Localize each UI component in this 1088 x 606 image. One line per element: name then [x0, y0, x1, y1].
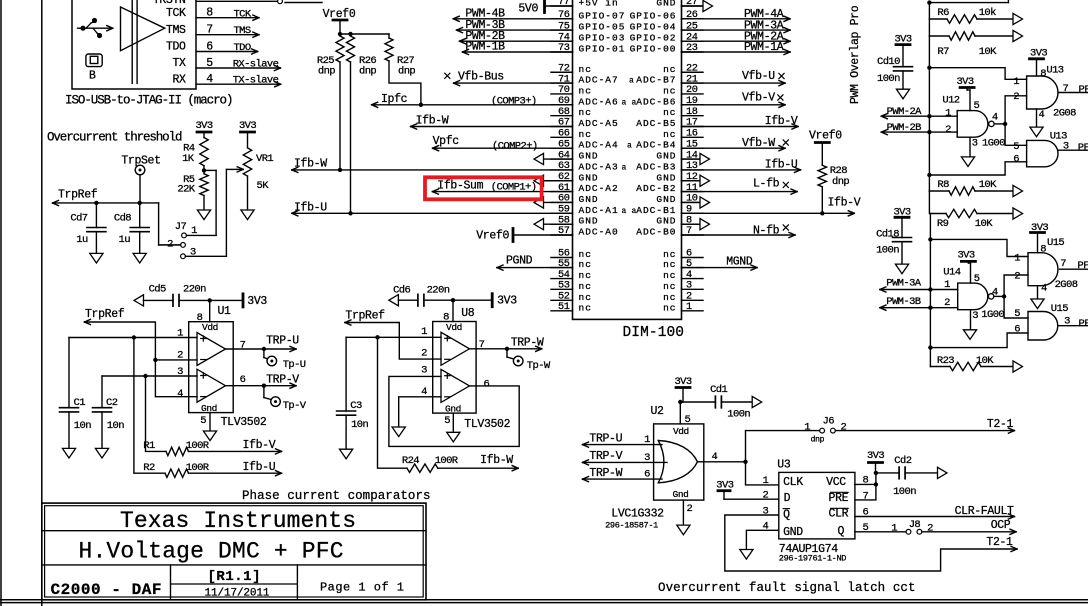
svg-text:Ipfc: Ipfc [381, 93, 408, 106]
svg-text:U14: U14 [943, 266, 960, 278]
svg-text:11/17/2011: 11/17/2011 [205, 588, 270, 600]
svg-text:6: 6 [1014, 323, 1020, 335]
svg-text:GPIO-02: GPIO-02 [630, 33, 677, 44]
svg-text:R2: R2 [143, 462, 155, 474]
svg-text:Cd10: Cd10 [877, 56, 900, 68]
svg-text:GPIO-01: GPIO-01 [579, 44, 626, 55]
svg-text:Vdd: Vdd [673, 426, 689, 437]
svg-text:nc: nc [663, 281, 676, 292]
svg-text:Ifb-V: Ifb-V [765, 115, 798, 128]
svg-text:TRSTN: TRSTN [153, 0, 186, 7]
svg-text:nc: nc [579, 302, 592, 313]
svg-text:PGND: PGND [506, 255, 533, 268]
svg-text:ADC-B1: ADC-B1 [636, 205, 676, 216]
svg-text:Cd7: Cd7 [70, 212, 87, 224]
svg-text:5: 5 [1013, 141, 1019, 153]
svg-text:U12: U12 [942, 94, 959, 106]
svg-text:TX: TX [172, 57, 186, 70]
svg-text:10n: 10n [74, 420, 91, 432]
svg-text:R9: R9 [937, 218, 949, 230]
svg-text:Q: Q [783, 508, 790, 521]
svg-text:6: 6 [1013, 153, 1019, 165]
svg-text:nc: nc [663, 107, 676, 118]
svg-text:ADC-A5: ADC-A5 [579, 118, 619, 129]
svg-text:J7: J7 [175, 221, 187, 233]
svg-text:Tp-V: Tp-V [283, 400, 307, 412]
svg-text:Overcurrent threshold: Overcurrent threshold [47, 130, 182, 144]
svg-text:7: 7 [1060, 258, 1066, 270]
svg-text:a: a [622, 207, 627, 216]
svg-text:296-18587-1: 296-18587-1 [605, 520, 658, 530]
svg-text:100R: 100R [435, 455, 459, 467]
svg-text:ADC-B0: ADC-B0 [636, 227, 676, 238]
svg-text:L-fb: L-fb [753, 178, 780, 191]
svg-text:a: a [632, 207, 637, 216]
svg-text:a: a [632, 98, 637, 107]
svg-text:10K: 10K [979, 46, 997, 58]
svg-text:100n: 100n [727, 408, 750, 420]
svg-text:nc: nc [579, 64, 592, 75]
svg-text:U2: U2 [651, 405, 665, 418]
svg-text:3V3: 3V3 [247, 295, 267, 308]
svg-text:TMS: TMS [233, 25, 250, 37]
svg-text:2G08: 2G08 [1053, 108, 1076, 120]
svg-text:nc: nc [663, 259, 676, 270]
svg-text:J8: J8 [909, 519, 921, 531]
svg-text:TRP-V: TRP-V [266, 373, 299, 386]
svg-text:TRP-U: TRP-U [266, 335, 299, 348]
svg-text:100n: 100n [893, 486, 916, 498]
svg-text:nc: nc [663, 270, 676, 281]
svg-text:TX-slave: TX-slave [233, 75, 279, 87]
svg-text:4: 4 [177, 388, 183, 400]
svg-text:R1: R1 [143, 440, 155, 452]
svg-text:Gnd: Gnd [673, 489, 689, 500]
svg-text:Cd18: Cd18 [876, 229, 899, 241]
svg-text:Vpfc: Vpfc [433, 135, 460, 148]
svg-text:Ifb-U: Ifb-U [294, 202, 327, 215]
svg-text:PWM-3B: PWM-3B [886, 296, 921, 308]
svg-text:10K: 10K [979, 179, 997, 191]
svg-text:7: 7 [1063, 83, 1069, 95]
svg-text:U15: U15 [1047, 237, 1064, 249]
svg-text:3: 3 [1064, 316, 1070, 328]
svg-text:ADC-B7: ADC-B7 [636, 75, 676, 86]
svg-text:VR1: VR1 [256, 153, 273, 165]
svg-text:(COMP2+): (COMP2+) [492, 140, 538, 152]
svg-text:R8: R8 [937, 179, 949, 191]
svg-text:10k: 10k [979, 7, 996, 19]
svg-text:Texas Instruments: Texas Instruments [120, 508, 356, 534]
svg-text:a: a [622, 98, 627, 107]
svg-text:1: 1 [1013, 76, 1019, 88]
svg-text:MGND: MGND [726, 256, 753, 269]
svg-text:GPIO-03: GPIO-03 [579, 33, 626, 44]
svg-text:3V3: 3V3 [867, 450, 884, 462]
svg-text:R7: R7 [937, 46, 949, 58]
svg-text:TRP-V: TRP-V [589, 450, 622, 463]
svg-text:27: 27 [686, 0, 698, 8]
svg-text:B: B [89, 70, 96, 83]
svg-text:1: 1 [945, 108, 951, 120]
svg-text:PF: PF [1077, 260, 1088, 272]
svg-text:Ifb-Sum: Ifb-Sum [437, 180, 483, 193]
svg-text:TRP-W: TRP-W [511, 337, 544, 350]
svg-text:ADC-A3: ADC-A3 [579, 161, 619, 172]
svg-text:2: 2 [421, 347, 427, 359]
svg-text:7: 7 [479, 339, 485, 351]
svg-text:TRP-W: TRP-W [589, 467, 622, 480]
svg-text:10K: 10K [976, 355, 994, 367]
svg-text:5: 5 [974, 273, 980, 285]
svg-text:100n: 100n [877, 73, 900, 85]
svg-text:TLV3502: TLV3502 [221, 416, 267, 429]
svg-text:ADC-A7: ADC-A7 [579, 75, 619, 86]
svg-text:Ifb-W: Ifb-W [294, 158, 327, 171]
svg-text:3V3: 3V3 [239, 120, 256, 132]
svg-text:296-19761-1-ND: 296-19761-1-ND [779, 554, 846, 564]
svg-text:nc: nc [579, 259, 592, 270]
svg-text:[R1.1]: [R1.1] [208, 569, 261, 585]
svg-text:Ifb-W: Ifb-W [480, 454, 513, 467]
svg-text:PRE: PRE [829, 492, 849, 505]
svg-text:nc: nc [579, 281, 592, 292]
svg-text:nc: nc [663, 64, 676, 75]
svg-text:22K: 22K [177, 184, 195, 196]
svg-text:a: a [629, 77, 634, 86]
svg-text:2: 2 [945, 124, 951, 136]
svg-text:ADC-A4: ADC-A4 [579, 140, 619, 151]
svg-text:a: a [627, 142, 632, 151]
svg-text:VCC: VCC [826, 476, 846, 489]
svg-text:Q: Q [838, 525, 845, 538]
svg-text:6: 6 [240, 374, 246, 386]
svg-text:U1: U1 [218, 305, 232, 318]
svg-text:4: 4 [712, 451, 718, 463]
svg-text:Vdd: Vdd [446, 322, 462, 333]
svg-text:100R: 100R [186, 440, 210, 452]
svg-text:ADC-A2: ADC-A2 [579, 183, 619, 194]
svg-text:100n: 100n [876, 245, 899, 257]
svg-text:2G08: 2G08 [1055, 279, 1078, 291]
svg-text:Cd2: Cd2 [894, 455, 911, 467]
svg-text:GPIO-06: GPIO-06 [630, 10, 677, 21]
svg-text:GND: GND [656, 194, 676, 205]
svg-text:1G00: 1G00 [982, 137, 1005, 149]
svg-text:R6: R6 [937, 7, 949, 19]
svg-text:a: a [622, 163, 627, 172]
svg-text:TCK: TCK [233, 9, 251, 21]
svg-text:nc: nc [579, 107, 592, 118]
svg-text:dnp: dnp [832, 176, 849, 188]
svg-text:ADC-B3: ADC-B3 [636, 161, 676, 172]
svg-text:PF: PF [1079, 84, 1088, 96]
svg-text:nc: nc [579, 270, 592, 281]
svg-text:ADC-A1: ADC-A1 [579, 205, 619, 216]
svg-text:5: 5 [444, 415, 450, 427]
svg-text:1u: 1u [119, 234, 131, 246]
svg-text:PF: PF [1078, 142, 1088, 154]
svg-text:T2-1: T2-1 [986, 536, 1013, 549]
svg-text:nc: nc [579, 292, 592, 303]
svg-text:GND: GND [656, 0, 676, 9]
svg-text:10n: 10n [351, 419, 368, 431]
svg-text:Ifb-V: Ifb-V [243, 439, 276, 452]
svg-text:GPIO-04: GPIO-04 [630, 22, 677, 33]
svg-text:CLK: CLK [783, 476, 803, 489]
svg-text:OCP: OCP [991, 519, 1011, 532]
svg-text:3: 3 [762, 506, 768, 518]
svg-text:TCK: TCK [166, 7, 186, 20]
svg-text:1: 1 [804, 421, 810, 433]
svg-text:220n: 220n [183, 283, 206, 295]
svg-text:2: 2 [177, 350, 183, 362]
svg-text:TrpRef: TrpRef [345, 310, 385, 323]
svg-text:3: 3 [1063, 141, 1069, 153]
svg-text:PWM-1A: PWM-1A [744, 41, 784, 54]
svg-text:ISO-USB-to-JTAG-II (macro): ISO-USB-to-JTAG-II (macro) [65, 94, 233, 108]
svg-text:1K: 1K [182, 153, 195, 165]
svg-text:TLV3502: TLV3502 [464, 418, 510, 431]
svg-text:4: 4 [1041, 283, 1047, 295]
svg-text:PWM-1B: PWM-1B [465, 41, 505, 54]
svg-text:3: 3 [421, 365, 427, 377]
svg-text:77: 77 [558, 0, 570, 8]
svg-text:Vdd: Vdd [202, 322, 218, 333]
svg-text:nc: nc [663, 249, 676, 260]
svg-text:nc: nc [579, 85, 592, 96]
svg-text:GND: GND [579, 151, 599, 162]
svg-text:Phase current comparators: Phase current comparators [242, 489, 430, 503]
svg-text:Cd1: Cd1 [710, 384, 727, 396]
svg-text:Tp-W: Tp-W [527, 360, 551, 372]
svg-text:1: 1 [762, 475, 768, 487]
svg-text:TDO: TDO [233, 42, 250, 54]
svg-text:3: 3 [644, 452, 650, 464]
svg-text:GPIO-07: GPIO-07 [579, 10, 626, 21]
svg-text:CLR-FAULT: CLR-FAULT [955, 505, 1014, 518]
svg-text:2: 2 [1014, 271, 1020, 283]
svg-text:1u: 1u [76, 234, 88, 246]
svg-text:ADC-B4: ADC-B4 [636, 140, 676, 151]
svg-text:1: 1 [891, 522, 897, 534]
svg-text:PWM Overlap Pro: PWM Overlap Pro [849, 5, 862, 104]
svg-text:GPIO-05: GPIO-05 [579, 22, 626, 33]
svg-text:Overcurrent fault signal latch: Overcurrent fault signal latch cct [658, 581, 915, 595]
svg-text:U15: U15 [1051, 303, 1068, 315]
svg-text:LVC1G332: LVC1G332 [611, 508, 664, 521]
svg-text:dnp: dnp [811, 435, 825, 444]
svg-text:GND: GND [579, 216, 599, 227]
svg-text:ADC-B2: ADC-B2 [636, 183, 676, 194]
svg-text:R24: R24 [402, 455, 419, 467]
svg-text:GND: GND [579, 194, 599, 205]
svg-text:TRP-U: TRP-U [589, 432, 622, 445]
svg-text:Ifb-W: Ifb-W [416, 115, 449, 128]
svg-text:GND: GND [656, 216, 676, 227]
svg-text:GND: GND [656, 172, 676, 183]
svg-text:8: 8 [1040, 68, 1046, 80]
svg-text:(COMP3+): (COMP3+) [491, 95, 537, 107]
svg-text:5K: 5K [257, 180, 270, 192]
svg-text:TDO: TDO [166, 41, 186, 54]
svg-text:ADC-A6: ADC-A6 [579, 96, 619, 107]
svg-text:Cd5: Cd5 [149, 283, 166, 295]
svg-text:Vref0: Vref0 [476, 229, 509, 242]
svg-text:3V3: 3V3 [497, 294, 517, 307]
svg-text:ADC-B5: ADC-B5 [636, 118, 676, 129]
svg-text:6: 6 [644, 469, 650, 481]
svg-text:U13: U13 [1046, 65, 1063, 77]
svg-text:CLR: CLR [829, 508, 849, 521]
svg-text:Ifb-U: Ifb-U [765, 159, 798, 172]
svg-text:Cd8: Cd8 [114, 212, 131, 224]
svg-text:dnp: dnp [318, 66, 335, 78]
svg-text:6: 6 [484, 378, 490, 390]
svg-text:R23: R23 [937, 355, 954, 367]
svg-text:GND: GND [783, 526, 803, 539]
svg-text:J6: J6 [823, 416, 835, 428]
svg-text:Vfb-W: Vfb-W [742, 137, 775, 150]
svg-text:C2: C2 [106, 397, 118, 409]
svg-text:Gnd: Gnd [201, 403, 217, 414]
svg-text:GND: GND [579, 172, 599, 183]
svg-text:5: 5 [200, 415, 206, 427]
svg-text:nc: nc [663, 85, 676, 96]
svg-text:220n: 220n [427, 284, 450, 296]
svg-text:(COMP1+): (COMP1+) [491, 181, 537, 193]
svg-text:dnp: dnp [398, 66, 415, 78]
svg-text:U3: U3 [777, 459, 791, 472]
svg-text:Cd6: Cd6 [393, 284, 410, 296]
svg-text:10n: 10n [107, 420, 124, 432]
svg-text:1: 1 [644, 434, 650, 446]
svg-text:2: 2 [841, 421, 847, 433]
svg-text:Page 1 of 1: Page 1 of 1 [320, 581, 404, 595]
svg-text:dnp: dnp [359, 66, 376, 78]
svg-text:3: 3 [972, 310, 978, 322]
svg-text:5V0: 5V0 [518, 3, 538, 16]
svg-text:RX-slave: RX-slave [233, 58, 279, 70]
svg-text:2: 2 [687, 503, 693, 515]
svg-text:8: 8 [1040, 244, 1046, 256]
svg-text:100R: 100R [186, 462, 210, 474]
svg-text:10K: 10K [975, 218, 993, 230]
svg-text:3V3: 3V3 [957, 250, 974, 262]
svg-text:4: 4 [1039, 109, 1045, 121]
svg-text:PF: PF [1079, 318, 1088, 330]
svg-text:Vref0: Vref0 [809, 129, 842, 142]
svg-text:Ifb-V: Ifb-V [828, 196, 861, 209]
svg-text:DIM-100: DIM-100 [623, 325, 684, 341]
svg-text:TrpRef: TrpRef [58, 189, 98, 202]
svg-text:7: 7 [240, 339, 246, 351]
svg-text:Vfb-Bus: Vfb-Bus [458, 71, 504, 84]
svg-text:U8: U8 [461, 307, 475, 320]
svg-text:nc: nc [579, 129, 592, 140]
svg-text:nc: nc [663, 129, 676, 140]
svg-text:1: 1 [421, 326, 427, 338]
svg-text:2: 2 [1013, 91, 1019, 103]
svg-text:Tp-U: Tp-U [283, 359, 306, 371]
svg-text:T2-1: T2-1 [987, 418, 1014, 431]
svg-text:3: 3 [972, 137, 978, 149]
svg-text:3V3: 3V3 [195, 120, 212, 132]
svg-text:Ifb-U: Ifb-U [243, 461, 276, 474]
svg-text:ADC-A0: ADC-A0 [579, 227, 619, 238]
svg-text:C2000 - DAF: C2000 - DAF [51, 581, 162, 599]
svg-text:1: 1 [1014, 253, 1020, 265]
svg-text:H.Voltage DMC + PFC: H.Voltage DMC + PFC [79, 539, 344, 565]
svg-text:nc: nc [663, 292, 676, 303]
svg-text:Vfb-U: Vfb-U [742, 70, 775, 83]
svg-text:5: 5 [1014, 308, 1020, 320]
svg-text:TMS: TMS [166, 24, 186, 37]
svg-text:nc: nc [579, 249, 592, 260]
svg-text:PWM-3A: PWM-3A [886, 278, 922, 290]
svg-text:RX: RX [172, 73, 186, 86]
svg-text:4: 4 [992, 111, 998, 123]
svg-text:+5V in: +5V in [579, 0, 619, 9]
svg-text:5: 5 [974, 100, 980, 112]
svg-text:nc: nc [663, 302, 676, 313]
svg-text:N-fb: N-fb [753, 225, 780, 238]
svg-text:Vfb-V: Vfb-V [742, 92, 775, 105]
svg-text:GPIO-00: GPIO-00 [630, 44, 677, 55]
svg-text:D: D [784, 492, 791, 505]
svg-text:GND: GND [656, 151, 676, 162]
svg-text:C3: C3 [350, 400, 362, 412]
svg-text:C1: C1 [74, 397, 86, 409]
svg-text:ADC-B6: ADC-B6 [636, 96, 676, 107]
svg-text:1G00: 1G00 [981, 309, 1004, 321]
